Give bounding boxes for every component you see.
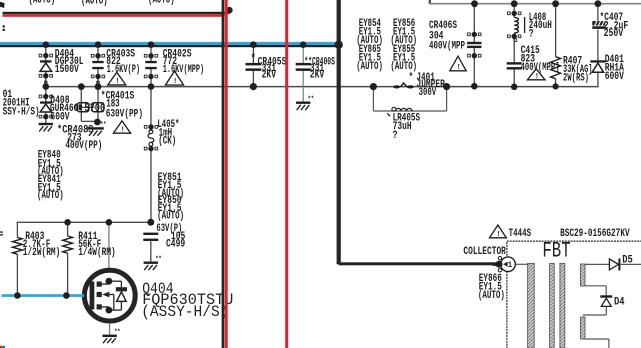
svg-text:2KV: 2KV bbox=[262, 70, 277, 82]
wire R403 top corner bbox=[16, 222, 18, 237]
node R403 gate bbox=[14, 292, 21, 299]
wire CR405S column upper bbox=[252, 45, 254, 63]
diode D401 symbol bbox=[590, 60, 605, 62]
wire collector pin to winding bbox=[516, 263, 528, 265]
pin D404 bottom bbox=[43, 73, 48, 78]
wire HV seg1 top to D5 bbox=[585, 263, 609, 265]
node CR403S on main bus bbox=[95, 83, 102, 90]
diode D5 symbol bbox=[609, 259, 618, 270]
pin CR406S top bbox=[472, 32, 477, 37]
svg-text:(CK): (CK) bbox=[158, 135, 176, 147]
inductor LR405S symbol bbox=[396, 108, 413, 111]
node R407 on main bus bbox=[553, 83, 559, 89]
svg-text:*: * bbox=[409, 72, 414, 84]
wire D408 column lower bbox=[45, 113, 47, 124]
FBT winding bar 1 bbox=[528, 263, 535, 348]
node red net horizontal top black part bbox=[3, 12, 230, 14]
wire vertical black partner of red line 1 bbox=[222, 0, 225, 348]
svg-text:!: ! bbox=[115, 78, 119, 86]
FBT HV winding segment 1 bbox=[580, 264, 585, 286]
node J401 left bbox=[370, 83, 377, 90]
svg-text:D4: D4 bbox=[614, 297, 625, 309]
node blue bus to collector line bbox=[335, 41, 343, 49]
svg-text:**: ** bbox=[308, 96, 314, 104]
wire C407 to D401 bbox=[597, 30, 599, 61]
node CR405S on main bus bbox=[250, 83, 257, 90]
node CR402S on blue bus bbox=[148, 41, 155, 48]
node R407 top bbox=[552, 0, 559, 7]
node CR401S lower junction bbox=[94, 119, 101, 126]
jumper J401 symbol bbox=[393, 85, 400, 88]
diode D408 symbol bbox=[40, 101, 52, 103]
resistor R403 symbol bbox=[13, 237, 23, 254]
svg-text:1.6KV(P): 1.6KV(P) bbox=[107, 64, 141, 76]
pin 1 circle FBT bbox=[501, 257, 516, 272]
wire CR400S column upper bbox=[302, 45, 304, 63]
wire CR403S to node below bbox=[97, 87, 99, 122]
svg-text:(AUTO): (AUTO) bbox=[81, 0, 108, 7]
svg-text:T444S: T444S bbox=[509, 228, 532, 240]
diode D404 symbol bbox=[40, 60, 52, 62]
FBT winding bar 3 bbox=[560, 263, 565, 348]
capacitor C415 symbol bbox=[507, 62, 522, 64]
wire R407 column bottom bbox=[555, 79, 557, 87]
svg-text:**: ** bbox=[100, 122, 106, 130]
pin D404 top bbox=[43, 53, 48, 58]
wire thick collector horizontal bbox=[339, 262, 497, 265]
warning triangle CR401S-L405 bbox=[113, 121, 130, 133]
node CR401S branch on main bus bbox=[78, 83, 85, 90]
wire D404 column upper bbox=[45, 47, 47, 61]
capacitor CR405S symbol bbox=[246, 63, 262, 66]
node CR406S on main bus bbox=[471, 83, 478, 90]
wire C499 to ground bbox=[150, 241, 152, 261]
via L408 lower bbox=[514, 39, 517, 42]
svg-text:600V: 600V bbox=[50, 111, 70, 123]
wire D5 output bbox=[620, 263, 641, 265]
svg-text:**: ** bbox=[114, 329, 120, 337]
resistor R411 symbol bbox=[63, 236, 73, 253]
node CR402S-L405 on main bus bbox=[148, 83, 155, 90]
wire Q404 drain lead bbox=[108, 222, 110, 271]
svg-text:1/4W(RM): 1/4W(RM) bbox=[78, 247, 116, 259]
svg-text:630V(PP): 630V(PP) bbox=[106, 109, 143, 121]
via collector below bbox=[498, 269, 501, 272]
svg-text:(ASSY-H/S): (ASSY-H/S) bbox=[141, 303, 228, 321]
svg-text:*: * bbox=[251, 53, 256, 66]
svg-text:400V(MPP: 400V(MPP bbox=[429, 41, 465, 53]
node R411 top bbox=[64, 219, 71, 226]
node CR400S on blue bus bbox=[300, 41, 307, 48]
wire HV seg2 bottom bbox=[585, 338, 609, 340]
pin L405 bottom bbox=[148, 146, 153, 151]
svg-text:(AUTO): (AUTO) bbox=[148, 0, 175, 6]
svg-text:250V: 250V bbox=[604, 28, 624, 40]
ground under D408 bbox=[39, 123, 53, 125]
svg-text:C499: C499 bbox=[166, 239, 185, 251]
FBT HV winding segment 2 bbox=[580, 317, 585, 339]
svg-text:!: ! bbox=[457, 64, 461, 72]
svg-text:(AUTO): (AUTO) bbox=[356, 61, 383, 73]
svg-text:2KV: 2KV bbox=[310, 70, 325, 82]
capacitor CR400S symbol bbox=[296, 63, 311, 66]
resistor R407 symbol bbox=[551, 57, 561, 79]
wire CR406S column upper bbox=[473, 4, 475, 43]
warning triangle CR402S bbox=[166, 71, 184, 85]
diode D4 symbol bbox=[600, 295, 612, 297]
node gate bus blue horizontal bbox=[2, 294, 85, 297]
wire D404 column lower bbox=[45, 71, 47, 86]
wire C415 to bus bbox=[513, 70, 515, 87]
node L408 top bbox=[511, 0, 518, 7]
pin CR406S bottom bbox=[472, 53, 477, 58]
svg-text:1/2W(RM): 1/2W(RM) bbox=[23, 247, 61, 259]
pin D408 bottom bbox=[43, 114, 48, 119]
svg-text:?: ? bbox=[529, 29, 534, 41]
pin L408 bottom bbox=[512, 34, 517, 39]
svg-text:FBT: FBT bbox=[542, 238, 570, 263]
wire R411 top bbox=[67, 222, 69, 236]
pin CR403S bottom bbox=[95, 74, 100, 79]
svg-text:1.6KV(MPP): 1.6KV(MPP) bbox=[163, 64, 205, 76]
svg-text:600V: 600V bbox=[605, 71, 625, 83]
ground under C499 bbox=[144, 262, 158, 264]
node CR403S on blue bus bbox=[95, 41, 102, 48]
wire thick collector vertical bbox=[337, 0, 341, 264]
svg-text:(AUTO): (AUTO) bbox=[390, 61, 417, 73]
inductor L405 symbol bbox=[149, 130, 153, 134]
wire CR401S branch vertical bbox=[80, 87, 82, 121]
node red net vertical line 1 bbox=[225, 0, 228, 348]
node corner joint red net bbox=[226, 7, 233, 14]
via collector above bbox=[498, 257, 501, 260]
ground under CR400S bbox=[296, 102, 310, 104]
wire HV seg1 bottom bbox=[585, 285, 606, 287]
ground under CR408S node bbox=[87, 127, 104, 129]
node C407 top bbox=[595, 0, 602, 7]
wire D401 to main bus bbox=[597, 72, 599, 87]
pin D408 top bbox=[43, 94, 48, 99]
wire D4 to HV seg2 bbox=[605, 306, 607, 315]
pin CR403S top bbox=[95, 53, 100, 58]
wire L408 to C415 bbox=[513, 33, 515, 62]
capacitor CR406S symbol bbox=[467, 42, 481, 44]
node red net horizontal top red part bbox=[3, 14, 225, 17]
node B+ bus blue horizontal bbox=[0, 42, 340, 45]
svg-text:(AUTO): (AUTO) bbox=[157, 211, 184, 223]
svg-text:400V(MPP]: 400V(MPP] bbox=[521, 62, 560, 74]
wire R411 bottom bbox=[67, 253, 69, 295]
svg-text:D5: D5 bbox=[622, 255, 633, 267]
pin L408 top bbox=[512, 11, 517, 16]
wire CR403S column lower bbox=[97, 69, 99, 87]
capacitor CR401S horizontal symbol bbox=[77, 103, 89, 112]
ground under Q404 bbox=[102, 335, 116, 337]
wire L405 column lower bbox=[150, 146, 152, 222]
wire top box outline bbox=[429, 0, 431, 4]
svg-text:(AUTO): (AUTO) bbox=[29, 0, 56, 6]
pin CR402S bottom bbox=[148, 74, 153, 79]
wire C407 column top bbox=[597, 4, 599, 23]
wire LR405S bypass bottom bbox=[373, 110, 446, 112]
wire CR401S branch elbow bbox=[81, 120, 97, 122]
svg-text:1: 1 bbox=[508, 262, 513, 270]
svg-text:?: ? bbox=[393, 130, 398, 142]
label colon fragment left edge bbox=[3, 25, 5, 27]
node CR405S on blue bus bbox=[250, 41, 257, 48]
wire L405 column upper bbox=[150, 87, 152, 131]
svg-text:2W(RS): 2W(RS) bbox=[563, 73, 589, 85]
svg-text:!: ! bbox=[121, 126, 125, 134]
wire main horizontal bus y=86.6 bbox=[44, 86, 598, 88]
svg-text:(AUTO): (AUTO) bbox=[478, 290, 505, 302]
capacitor C407 symbol bbox=[592, 21, 605, 25]
wire CR406S column lower bbox=[473, 48, 475, 87]
svg-text:**: ** bbox=[155, 256, 161, 264]
node R411 gate bbox=[63, 292, 70, 299]
wire D408 column upper bbox=[45, 87, 47, 102]
svg-text:(AUTO): (AUTO) bbox=[37, 190, 64, 202]
FBT box dotted outline bbox=[507, 241, 641, 348]
wire Q404 source lead bbox=[109, 321, 111, 336]
pin CR402S top bbox=[148, 53, 153, 58]
wire CR400S column lower bbox=[302, 71, 304, 102]
svg-text:!: ! bbox=[496, 231, 500, 239]
FBT winding bar 2 bbox=[550, 263, 555, 348]
wire R403 bottom bbox=[16, 254, 18, 295]
wire CR402S column lower bbox=[150, 69, 152, 87]
node collector junction dot bbox=[496, 261, 503, 268]
wire LR405S bypass right bbox=[446, 88, 448, 111]
wire CR402S column upper bbox=[150, 47, 152, 61]
node D404-D408 on main bus bbox=[43, 83, 50, 90]
warning triangle CR406S bbox=[450, 56, 466, 71]
capacitor C499 symbol bbox=[143, 233, 158, 235]
node top-left arrow fragment bbox=[0, 2, 5, 8]
warning triangle CR403S bbox=[108, 72, 126, 85]
node red net vertical line 2 bbox=[285, 0, 288, 348]
svg-text:1500V: 1500V bbox=[55, 64, 79, 76]
wire CR403S column upper bbox=[97, 47, 99, 61]
inductor L408 symbol bbox=[514, 17, 518, 33]
wire CR405S column lower bbox=[252, 71, 254, 87]
wire LR405S bypass left bbox=[372, 88, 374, 111]
via D404 lower bbox=[44, 81, 47, 84]
node Q404 drain bbox=[106, 219, 113, 226]
svg-text:SSY-H/S): SSY-H/S) bbox=[3, 107, 40, 119]
node D404 on blue bus bbox=[43, 41, 50, 48]
svg-text:!: ! bbox=[173, 78, 177, 86]
node J401 right bbox=[443, 83, 450, 90]
pin L405 top bbox=[148, 124, 153, 129]
svg-text:5700: 5700 bbox=[84, 103, 105, 115]
node L405-C499 bbox=[147, 219, 154, 226]
wire L408 column top bbox=[513, 4, 515, 18]
node bottom-left color marks bbox=[0, 346, 2, 348]
warning triangle C415 bbox=[527, 69, 545, 80]
via CR403S lower bbox=[97, 81, 100, 84]
warning triangle T444S bbox=[490, 225, 507, 238]
wire gate network horizontal y=222.3 bbox=[17, 221, 151, 223]
node CR406S top bbox=[471, 0, 478, 7]
capacitor CR402S symbol bbox=[145, 61, 156, 63]
node C415 on main bus bbox=[511, 84, 518, 91]
wire R407 column top bbox=[555, 4, 557, 57]
svg-text:400V(PP): 400V(PP) bbox=[65, 140, 102, 152]
capacitor CR403S symbol bbox=[92, 61, 103, 63]
node edge dash left bbox=[0, 231, 3, 232]
transistor Q404 MOSFET bbox=[84, 270, 135, 321]
wire CR401S horizontal bbox=[81, 106, 95, 108]
svg-text:300V: 300V bbox=[419, 87, 437, 99]
